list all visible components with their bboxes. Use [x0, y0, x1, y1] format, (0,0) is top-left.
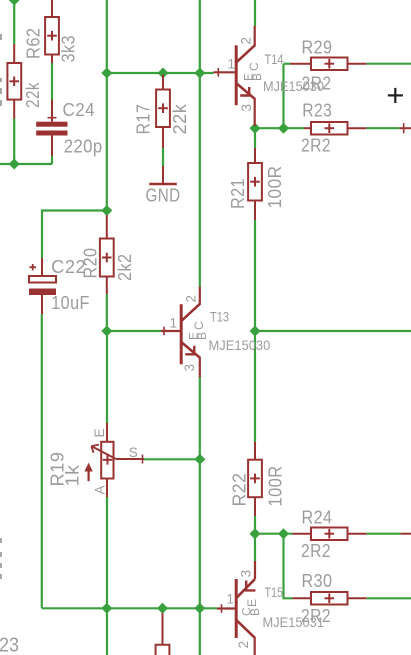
svg-text:220p: 220p [64, 137, 103, 157]
resistor R21 100R [248, 148, 262, 220]
svg-text:C: C [247, 62, 261, 71]
wire bottom resistor stub [161, 608, 163, 613]
wire y=533.7 row to R24 [255, 533, 293, 535]
transistor T14 MJE15030 [214, 26, 255, 126]
junction at 255,331 [250, 326, 261, 337]
junction at 14,0 [9, 0, 20, 6]
wire R21 top link [254, 128, 256, 149]
svg-text:3: 3 [239, 104, 254, 112]
resistor R30 2R2 [293, 592, 367, 605]
svg-text:A: A [93, 485, 108, 494]
junction at 283.5,533.7 [278, 528, 289, 539]
junction at 199.8,608.3 [194, 603, 205, 614]
capacitor C24 220p [48, 100, 57, 157]
svg-text:GND: GND [146, 186, 181, 206]
svg-text:1: 1 [227, 592, 235, 607]
junction at 283.5,128.2 [278, 123, 289, 134]
wire left column x=14.2 below resistor [13, 118, 15, 164]
junction at 255,533.7 [250, 528, 261, 539]
trimmer R19 1k [89, 423, 144, 497]
wire C22 bottom x=41.8 [41, 314, 43, 608]
svg-text:R24: R24 [302, 508, 333, 528]
svg-text:C: C [192, 321, 206, 330]
wire R62-C24 link [51, 63, 53, 100]
wire vertical x=283.5 R29 to row128 [282, 64, 284, 129]
wire R30 right [366, 597, 411, 599]
svg-text:R17: R17 [134, 104, 154, 135]
bottom resistor (cut) [156, 613, 170, 655]
svg-text:100R: 100R [265, 166, 285, 209]
svg-text:23: 23 [0, 635, 19, 655]
gate letters T14 [242, 62, 265, 81]
transistor T15 MJE15031 [217, 561, 255, 655]
resistor R29 2R2 [290, 58, 366, 71]
svg-text:R20: R20 [81, 248, 101, 279]
svg-text:S: S [129, 445, 138, 460]
wire horizontal y=331 to T13 base [107, 330, 161, 332]
wire x=255 down to T15 emitter [254, 534, 256, 562]
left edge text fragments [0, 34, 2, 579]
wire left column x=14.2 top [13, 0, 15, 44]
svg-text:R29: R29 [302, 38, 333, 58]
svg-text:E: E [245, 599, 259, 607]
svg-text:MJE15030: MJE15030 [209, 338, 271, 353]
wire vertical x=106.8 y73 to y210.5 [106, 73, 108, 215]
svg-text:C: C [240, 607, 254, 616]
gate letters T15 [240, 599, 263, 616]
junction at 106.8,73 [101, 68, 112, 79]
svg-text:2: 2 [236, 641, 251, 649]
resistor R61 (left edge, 22k) [7, 44, 21, 119]
resistor R22 100R [248, 442, 262, 516]
svg-text:1: 1 [170, 316, 178, 331]
junction at 199.8,73 [194, 68, 205, 79]
transistor T13 MJE15030 [161, 287, 200, 378]
svg-text:3: 3 [182, 364, 197, 372]
resistor R23 2R2 [304, 122, 411, 135]
wire C22 top corner [42, 211, 107, 259]
svg-text:2R2: 2R2 [302, 74, 332, 94]
junction at 106.8,331 [101, 326, 112, 337]
wire x=283.5 down to R30 [284, 534, 293, 599]
ground symbol GND [149, 166, 177, 184]
svg-text:100R: 100R [266, 466, 286, 507]
svg-text:E: E [242, 73, 256, 81]
junction at 255,128.2 [250, 123, 261, 134]
wire C24 bottom stub [51, 156, 53, 164]
gate letters T13 [187, 321, 210, 340]
svg-text:E: E [92, 428, 107, 437]
svg-text:R21: R21 [228, 178, 248, 209]
resistor R20 2k2 [100, 215, 114, 294]
junction at 162.5,608.3 [157, 603, 168, 614]
wire horizontal y=164 to left edge [0, 163, 52, 165]
svg-text:R30: R30 [302, 571, 333, 591]
svg-text:2k2: 2k2 [115, 254, 135, 282]
svg-text:22k: 22k [23, 82, 43, 108]
wire horizontal y=331 from x255 to right edge [255, 330, 411, 332]
junction at 163,73 [158, 68, 169, 79]
svg-text:2: 2 [184, 295, 199, 303]
wire bottom rail y=608.3 [42, 607, 217, 609]
junction at 106.8,608.3 [101, 603, 112, 614]
svg-text:1k: 1k [63, 464, 83, 487]
svg-text:2: 2 [239, 37, 254, 45]
svg-text:22k: 22k [170, 103, 190, 134]
svg-text:3: 3 [239, 570, 254, 578]
svg-text:R22: R22 [230, 473, 250, 507]
wire vertical x=255 top to T14 collector [254, 0, 256, 27]
svg-text:R62: R62 [24, 28, 44, 60]
resistor R24 2R2 [293, 528, 411, 541]
svg-text:1: 1 [228, 57, 236, 72]
wire horizontal y=73 from 106.8 to T14 base [107, 72, 214, 74]
wire R19 bottom x=107 [106, 497, 108, 655]
svg-text:T15: T15 [265, 585, 284, 600]
svg-text:R23: R23 [302, 101, 332, 121]
wire R24 right [366, 533, 400, 535]
svg-text:E: E [187, 332, 201, 340]
junction at 14.2,164 [9, 159, 20, 170]
wire T13 emitter down x=199.8 [199, 377, 201, 655]
wire vertical x=106.8 top to y73 [106, 0, 108, 73]
wire R22 bottom stub [254, 516, 256, 534]
svg-text:T14: T14 [265, 52, 284, 67]
wire vertical x=199.8 top to y73 [199, 0, 201, 73]
capacitor C22 10uF [29, 258, 56, 314]
wire R19 top x=107 [106, 331, 108, 423]
wire R23 right [366, 127, 399, 129]
junction at 199.8,459.3 [194, 454, 205, 465]
junction at 106.8,210.5 [101, 205, 112, 216]
wire vertical x=255 R21 to R22 [254, 220, 256, 442]
wire S row y=459.3 [144, 458, 200, 460]
svg-text:MJE15031: MJE15031 [263, 615, 325, 630]
svg-text:10uF: 10uF [51, 293, 90, 313]
resistor R17 22k [156, 75, 170, 149]
black origin cross [388, 88, 403, 103]
wire vertical x=199.8 y73 down to T13 collector [199, 73, 201, 287]
wire R20 bottom to base row [106, 294, 108, 332]
wire corner R29 left [284, 63, 291, 65]
svg-text:2R2: 2R2 [301, 136, 331, 156]
svg-text:C24: C24 [63, 100, 96, 120]
wire R17 gnd link [162, 148, 164, 166]
svg-text:2R2: 2R2 [301, 541, 331, 561]
svg-text:T13: T13 [210, 310, 229, 325]
resistor R62 3k3 [45, 0, 59, 63]
wire horizontal y=128.2 emitter row [255, 127, 304, 129]
wire R29 right [366, 63, 411, 65]
svg-text:3k3: 3k3 [59, 35, 79, 63]
